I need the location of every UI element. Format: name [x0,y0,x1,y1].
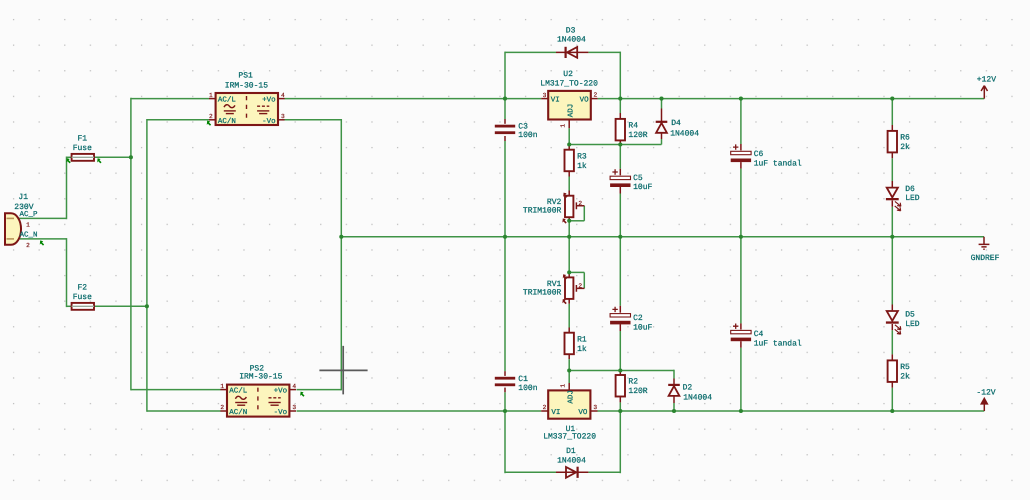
wire to PS2 pin2 [147,410,221,412]
ERC marker at RV1 pin 1 [563,274,567,279]
junction U1 ADJ node / C2 / R2 [618,368,622,372]
connector J1 body [5,213,21,245]
ERC marker at PS2 pin 4 [300,392,304,397]
ERC marker at RV1 pin 3 [562,299,566,304]
svg-text:GNDREF: GNDREF [971,254,1000,263]
svg-text:120R: 120R [628,387,647,396]
svg-text:D4: D4 [671,119,681,128]
svg-text:C1: C1 [518,375,528,384]
svg-text:TRIM100R: TRIM100R [523,207,562,216]
svg-text:1: 1 [560,124,567,128]
ERC marker at F1 left [66,158,70,163]
junction GND rail / PS link [339,235,343,239]
junction F1 output node [129,155,133,159]
power symbol +12V [981,86,987,99]
pin C3 top [504,119,506,124]
wire PS2 +Vo out [297,389,342,391]
wire node to C5 [619,145,621,169]
pin R2 bottom [619,397,621,402]
pin D2 cathode [673,379,675,385]
PS1 internal divider [246,96,248,122]
wire to PS1 pin1 [131,98,209,100]
wire node to U1 ADJ [568,371,570,384]
pin PS2-1 [220,389,227,391]
pin R3 top [568,145,570,150]
PS1 AC sine symbol [224,105,235,108]
pin PS2-3 [289,410,296,412]
wire J1 AC_N to F2 [19,238,67,240]
junction -raw rail / C1 / D1 [503,409,507,413]
svg-text:F2: F2 [77,284,87,293]
svg-text:C3: C3 [518,122,528,131]
wire RV2 wiper loop horizontal [569,220,584,222]
svg-text:C6: C6 [754,150,764,159]
pin PS2-2 [220,410,227,412]
wire vertical up to F1 [66,157,68,220]
svg-text:VI: VI [551,409,560,417]
junction U2 ADJ node / R3 [567,142,571,146]
svg-text:1uF tandal: 1uF tandal [754,339,802,348]
polarized capacitor C6 [731,151,751,154]
svg-text:C5: C5 [633,174,643,183]
wire U2 ADJ node [569,144,661,146]
pin PS1-3 [278,119,285,121]
pin C1 bottom [504,388,506,393]
svg-text:+Vo: +Vo [274,388,288,396]
resistor R3 [565,150,574,172]
wire into F2 [67,305,72,307]
junction F2 output node [145,304,149,308]
svg-text:AC/N: AC/N [229,408,247,417]
junction -12V node / R2 / D1 [618,409,622,413]
svg-text:F1: F1 [77,134,87,143]
svg-text:Fuse: Fuse [73,293,92,302]
junction GND rail / C6 / C4 [739,235,743,239]
diode D4 symbol [656,121,668,123]
junction RV2 wiper tie [567,219,571,223]
svg-text:TRIM100R: TRIM100R [523,288,562,297]
svg-text:AC_P: AC_P [19,210,38,219]
svg-text:VO: VO [578,408,588,417]
pin RV2 top [568,191,570,196]
ERC marker at RV2 pin 3 [562,218,566,223]
polarized capacitor C4 [731,330,751,333]
fuse F2 [72,303,94,310]
wire to D1 anode [505,471,556,473]
svg-text:D6: D6 [905,185,915,194]
pin R1 top [568,328,570,333]
svg-text:LED: LED [905,320,920,329]
wire U1 ADJ node [569,370,674,372]
pin D4 cathode [661,109,663,122]
wire GND rail to D5 [891,237,893,305]
svg-text:IRM-30-15: IRM-30-15 [239,372,282,381]
pin PS2-4 [289,389,296,391]
diode D3 1N4004 (horizontal, cathode left) [556,51,588,53]
pin R5 top [891,354,893,360]
cursor crosshair [319,346,367,395]
wire RV1 wiper loop horizontal [569,271,584,273]
svg-text:-Vo: -Vo [274,409,288,417]
svg-text:AC_N: AC_N [19,231,37,240]
svg-text:2k: 2k [900,143,910,152]
wire C2 to U1 ADJ node [619,331,621,371]
pin U2-2 VO [591,98,598,100]
pin R4 bottom [619,140,621,145]
resistor R4 [616,119,625,140]
svg-text:10uF: 10uF [633,324,652,333]
AC/DC module PS1 body [216,93,278,125]
pin C2 top [619,306,621,313]
svg-text:+12V: +12V [977,75,996,84]
LED D6 symbol [887,188,898,198]
junction U1 ADJ node / R1 [567,368,571,372]
junction -12V rail / R5 [890,409,894,413]
LED D5 symbol [887,311,898,321]
svg-text:C2: C2 [633,314,643,323]
resistor R2 [616,375,625,397]
trimmer potentiometer RV1 [565,277,573,299]
wire vertical AC neutral bus [146,119,148,412]
wire to PS1 pin2 [147,119,209,121]
resistor R5 [888,360,897,382]
pin R2 top [619,371,621,376]
ERC marker at RV2 pin 1 [563,193,567,198]
svg-text:AC/L: AC/L [229,387,248,396]
wire D1 right riser [619,410,621,473]
wire into F1 [67,156,72,158]
svg-text:-12V: -12V [976,388,995,397]
wire to PS2 pin1 [131,389,221,391]
wire RV2 to GND rail [568,221,570,237]
wire U2 ADJ to node [568,128,570,144]
svg-text:-Vo: -Vo [262,118,276,126]
wire rail to R6 [891,99,893,125]
wire R1 to U1 ADJ node [568,359,570,370]
svg-text:R1: R1 [577,335,587,344]
svg-text:2: 2 [578,282,582,289]
svg-text:LM317_TO-220: LM317_TO-220 [540,80,598,89]
svg-text:10uF: 10uF [633,183,652,192]
svg-text:AC/L: AC/L [218,96,237,105]
wire D6 to GND rail [891,207,893,237]
pin C4 top [740,323,742,329]
junction +12V rail / D4 [659,97,663,101]
svg-text:D3: D3 [566,26,576,35]
wire rail to D4 [661,99,663,109]
svg-text:1k: 1k [577,162,587,171]
wire C3 to GND rail [504,141,506,237]
resistor R6 [888,131,897,153]
polarized capacitor C2 [610,314,630,317]
svg-text:U2: U2 [563,70,573,79]
diode D1 1N4004 (horizontal, cathode right) [556,471,588,473]
fuse F1 [72,154,94,161]
wire rail to R4 [619,99,621,113]
wire PS1 -Vo out [285,119,342,121]
svg-text:4: 4 [292,383,296,390]
svg-text:2: 2 [543,404,547,411]
trimmer potentiometer RV2 [565,196,573,218]
wire GND rail to C1 [504,237,506,371]
wire RV1 wiper loop vertical [583,272,585,288]
pin PS1-1 [209,98,216,100]
svg-text:+Vo: +Vo [262,97,276,105]
wire R6 to D6 [891,158,893,181]
pin C6 bottom [740,162,742,169]
wire GND rail to C4 [740,237,742,324]
svg-text:ADJ: ADJ [568,104,576,118]
svg-text:3: 3 [593,404,597,411]
wire R2 to -12V rail [619,402,621,411]
junction RV1 wiper tie [567,270,571,274]
pin R5 bottom [891,382,893,388]
pin U2 ADJ [568,120,570,129]
PS2 AC sine symbol [235,396,246,399]
svg-text:R4: R4 [628,122,638,131]
wire GND rail to RV1 [568,237,570,273]
svg-text:D2: D2 [683,383,693,392]
wire GND rail [341,236,984,238]
wire rail to C3 [504,99,506,119]
capacitor C1 [495,377,515,380]
pin RV2 bottom [568,217,570,221]
LED D5 emission arrows [895,325,901,330]
svg-text:2: 2 [594,91,598,98]
PS2 DC symbol [269,397,281,399]
pin C3 bottom [504,136,506,141]
pin D4 anode [661,133,663,139]
resistor R1 [565,333,574,355]
AC/DC module PS2 body [227,385,289,417]
svg-text:2: 2 [578,200,582,207]
pin U1-3 VO [590,410,597,412]
polarized capacitor C5 [610,176,630,179]
wire to D3 anode [505,51,556,53]
pin R6 top [891,125,893,131]
wire C4 to -12V rail [740,348,742,411]
svg-text:C4: C4 [754,330,764,339]
wire C1 to -raw rail [504,392,506,411]
pin C6 top [740,144,742,150]
PS1 DC symbol [257,105,269,107]
power symbol -12V [983,404,985,411]
svg-text:D1: D1 [566,447,576,456]
junction -12V rail / C4 [739,409,743,413]
pin R6 bottom [891,152,893,158]
pin U2-3 VI [541,98,548,100]
wire -12V rail [598,410,985,412]
svg-text:4: 4 [281,92,285,99]
svg-text:2k: 2k [900,373,910,382]
svg-text:ADJ: ADJ [568,390,576,404]
junction +12V rail / R6 [890,97,894,101]
wire RV1 to R1 [568,304,570,328]
wire vertical PS1- to PS2+ [340,119,342,390]
wire D5 to R5 [891,330,893,354]
wire RV2 wiper loop vertical [583,206,585,221]
pin R1 bottom [568,354,570,359]
wire C5 to GND rail [619,194,621,237]
svg-text:1N4004: 1N4004 [683,394,712,403]
junction U2 ADJ node / R4 / C5 [618,142,622,146]
svg-text:VI: VI [551,96,560,104]
svg-text:D5: D5 [905,311,915,320]
wire D2 to -12V rail [673,403,675,411]
junction GND rail / C5 / C2 [618,235,622,239]
wire D1 left riser [504,410,506,473]
svg-text:3: 3 [292,404,296,411]
pin R4 top [619,113,621,119]
ERC marker at F1 right [97,158,101,163]
pin RV1 bottom [568,299,570,304]
ground symbol GNDREF [979,237,990,249]
pin D2 anode [673,396,675,403]
pin C2 bottom [619,324,621,331]
pin U1 ADJ [568,383,570,390]
wire F1 output [94,156,131,158]
svg-text:1: 1 [559,384,566,388]
regulator U1 LM337 body [548,390,590,418]
svg-text:1uF tandal: 1uF tandal [754,160,802,169]
pin D5 anode [891,305,893,311]
ERC marker at PS1 pin 2 [207,121,211,126]
svg-text:1: 1 [209,92,213,99]
svg-text:IRM-30-15: IRM-30-15 [225,82,268,91]
wire F2 output [94,305,147,307]
wire R3 to RV2 [568,177,570,191]
svg-text:LED: LED [905,194,920,203]
svg-text:R3: R3 [577,152,587,161]
svg-text:2: 2 [209,113,213,120]
svg-text:R6: R6 [900,134,910,143]
wire C6 to GND rail [740,169,742,237]
J1 pin 2 stub [7,238,15,240]
wire +12V rail [598,98,985,100]
svg-text:VO: VO [580,95,590,104]
svg-text:1: 1 [220,383,224,390]
pin RV1 top [568,272,570,277]
pin C5 bottom [619,187,621,194]
svg-text:PS1: PS1 [238,72,253,81]
LED D6 emission arrows [895,201,901,206]
svg-text:2: 2 [220,404,224,411]
wire rail to C6 [740,99,742,144]
ERC marker at J1 pin 2 [40,240,44,245]
junction GND rail / RV2 / RV1 [567,235,571,239]
wire GND rail to C2 [619,237,621,306]
svg-text:1N4004: 1N4004 [557,457,586,466]
junction GND rail / D6 / D5 [890,235,894,239]
wire R5 to -12V rail [891,388,893,411]
svg-text:3: 3 [543,92,547,99]
pin D6 anode [891,181,893,187]
pin C5 top [619,169,621,176]
svg-text:100n: 100n [518,131,537,140]
svg-text:100n: 100n [518,384,537,393]
wire vertical AC line bus [130,98,132,391]
svg-text:120R: 120R [628,131,647,140]
junction -12V rail / D2 [672,409,676,413]
pin C1 top [504,371,506,376]
regulator U2 LM317 body [548,91,591,120]
pin R3 bottom [568,171,570,177]
svg-text:R5: R5 [900,363,910,372]
junction +raw rail / C3 / D3 [503,97,507,101]
junction +12V node / R4 / D3 [618,97,622,101]
svg-text:1N4004: 1N4004 [557,36,586,45]
pin PS1-4 [278,98,285,100]
wire -raw rail PS2 to U1 VI [297,410,542,412]
wire D3 left riser [504,52,506,100]
svg-text:1N4004: 1N4004 [670,129,699,138]
pin PS1-2 [209,119,216,121]
wire J1 AC_P to F1 [19,217,67,219]
wire D3 cathode side [588,51,620,53]
pin U1-2 VI [541,410,548,412]
junction +12V rail / C6 [739,97,743,101]
wire ADJ node to D2 [673,370,675,379]
svg-text:Fuse: Fuse [73,144,92,153]
pin C4 bottom [740,341,742,348]
pin D6 cathode [891,201,893,207]
wire D3 right riser [619,52,621,98]
svg-text:1: 1 [26,221,30,228]
svg-text:R2: R2 [628,378,638,387]
wire +raw rail PS1 to U2 VI [285,98,542,100]
wire D1 cathode side [588,471,620,473]
svg-text:2: 2 [26,242,30,249]
junction GND rail / C3 / C1 [503,235,507,239]
diode D2 symbol [668,384,680,386]
svg-text:3: 3 [281,113,285,120]
svg-text:J1: J1 [18,193,28,202]
svg-text:LM337_TO220: LM337_TO220 [543,432,596,441]
wire D4 to ADJ node [661,139,663,145]
svg-text:AC/N: AC/N [218,117,236,126]
svg-text:1k: 1k [577,345,587,354]
wire vertical down to F2 [66,238,68,307]
PS2 internal divider [257,388,259,414]
J1 pin 1 stub [7,217,15,219]
capacitor C3 [495,125,515,128]
pin D5 cathode [891,324,893,330]
